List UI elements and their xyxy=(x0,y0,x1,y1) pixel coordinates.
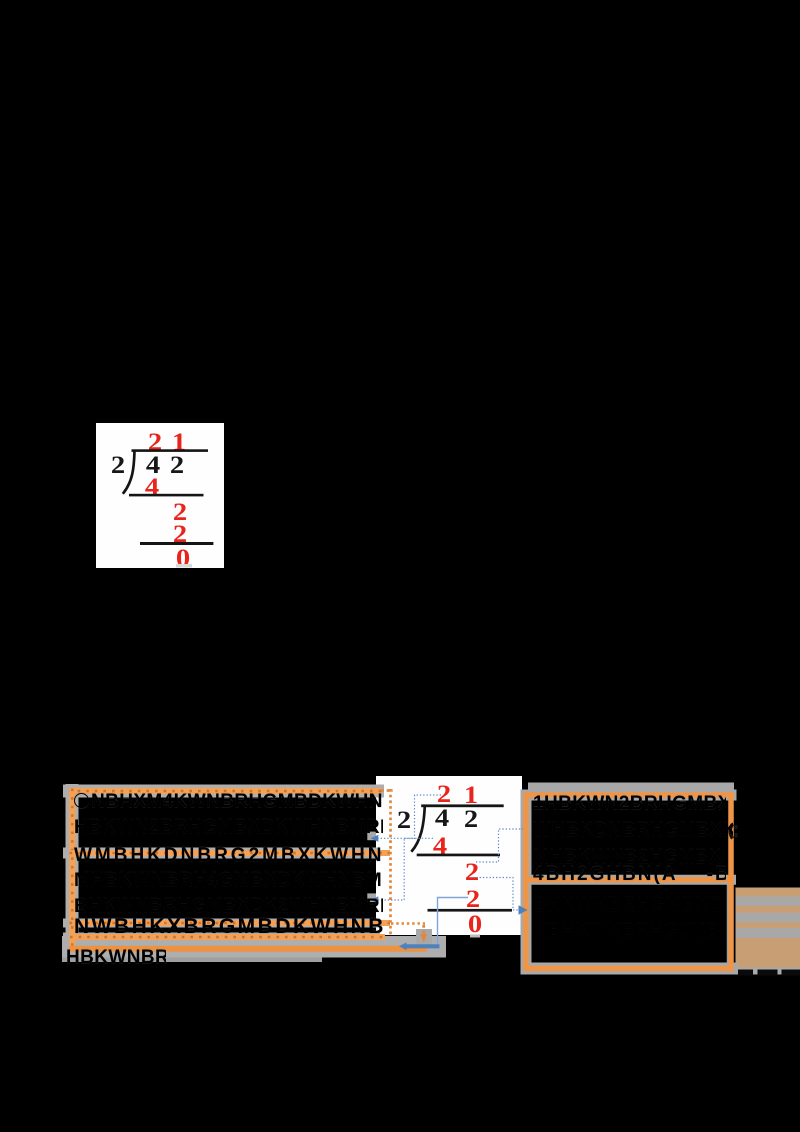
left box separator 1 dark dashes xyxy=(70,852,391,854)
halo of blue arrow B xyxy=(367,893,376,902)
halo of left dashed box top border xyxy=(63,785,384,798)
halo of blue arrow A xyxy=(367,832,376,841)
square-dot right border of left box xyxy=(389,789,392,935)
left box text line 3 xyxy=(74,846,383,865)
quotient digit 2 (red) xyxy=(437,781,451,807)
left box bottom border light bar xyxy=(70,934,385,940)
brought-down 2 (red) xyxy=(172,499,186,525)
left box separator 1 light bar xyxy=(70,850,391,856)
left box text line 1 xyxy=(74,792,383,811)
gray smudge under bottom 0 xyxy=(470,935,480,938)
beige highlighted text block right of right box xyxy=(736,888,800,969)
blue thick bar E xyxy=(404,944,440,948)
gray fuzz band under bottom-left caption xyxy=(62,958,322,963)
left box text line 2 xyxy=(74,818,383,837)
right box gray halo: left/top/bottom + extra top band xyxy=(521,790,532,975)
top division vinculum xyxy=(132,449,209,452)
left box text line 5 xyxy=(74,897,383,916)
right box orange border xyxy=(526,795,731,969)
halo of left box separator 2 xyxy=(63,919,380,928)
quotient digit 1 (red) xyxy=(464,782,478,808)
left box separator 2 dark dashes xyxy=(70,922,391,924)
gray smudge under top 0 xyxy=(176,564,192,568)
square-dot path F horizontal xyxy=(391,922,425,925)
left dashed box top border light bar xyxy=(69,788,381,794)
dividend digit 4 xyxy=(435,805,449,831)
white box of bottom division diagram xyxy=(376,776,522,935)
bottom division final line xyxy=(428,909,513,912)
gray text row below beige block xyxy=(736,968,800,975)
halo of left dashed box left border xyxy=(66,784,79,953)
bottom division vinculum xyxy=(421,804,504,807)
overflow glyph right of right box xyxy=(730,824,732,839)
white box of top division diagram xyxy=(96,423,224,568)
halo of left box separator 1 xyxy=(63,848,380,859)
text line below left box xyxy=(66,948,166,967)
right box separator halo xyxy=(521,875,736,885)
product 2 (red) xyxy=(466,886,480,912)
blue arrow E pointing left xyxy=(399,942,407,950)
subtracted 4 (red) xyxy=(144,474,158,500)
left dashed box top border dark dashes xyxy=(69,790,381,792)
bottom division first subtraction line xyxy=(417,854,500,857)
right box cell1 line 1 xyxy=(533,794,726,813)
left dashed box left border dark dashes xyxy=(71,789,73,951)
left box text line 4 xyxy=(74,871,383,890)
blue thin solid path E xyxy=(438,898,469,945)
orange arrow F pointing down xyxy=(420,934,427,943)
product 2 (red) xyxy=(172,521,186,547)
right box cell2 line on separator xyxy=(533,865,726,884)
right box cell2 line 2 xyxy=(533,896,726,915)
left box separator 2 light bar xyxy=(70,920,391,926)
right box cell1 line 3 xyxy=(533,848,726,867)
right box cell2 line 3 xyxy=(533,922,726,941)
divisor 2 xyxy=(111,452,125,478)
square-dot corner segment top right xyxy=(381,789,393,792)
blue dotted path C (remainder 2 to right box) xyxy=(476,829,523,862)
halo of left box bottom border xyxy=(63,933,380,942)
blue arrow A xyxy=(371,835,379,842)
right box cell1 line 2 xyxy=(533,821,733,840)
left box text line 6 xyxy=(74,917,383,936)
left box bottom border dark dashes xyxy=(70,936,385,938)
bottom thick orange bar xyxy=(69,946,427,952)
bottom division bracket curve xyxy=(411,806,425,852)
halo of orange down-arrow F xyxy=(416,929,432,947)
divisor 2 xyxy=(397,807,411,833)
square-dot path F vertical xyxy=(422,925,425,933)
quotient digit 1 (red) xyxy=(171,429,185,455)
blue arrow B xyxy=(371,896,379,903)
top division final line xyxy=(140,542,213,545)
blue arrow D xyxy=(519,905,528,914)
dividend digit 2 xyxy=(464,806,478,832)
brought-down 2 (red) xyxy=(464,859,478,885)
halo of bottom thick orange bar xyxy=(62,936,446,958)
remainder 0 (red) xyxy=(467,911,481,937)
blue dotted path A (to quotient tens digit) xyxy=(374,795,441,838)
blue dotted path B (to subtracted 4) xyxy=(374,838,433,900)
dividend digit 4 xyxy=(146,452,160,478)
blue dotted path D (to right box lower cell) xyxy=(473,878,518,911)
top division bracket curve xyxy=(123,451,135,494)
dividend digit 2 xyxy=(170,452,184,478)
top division first subtraction line xyxy=(129,494,204,497)
quotient digit 2 (red) xyxy=(148,429,162,455)
remainder 0 (red) xyxy=(176,545,190,571)
right box orange separator xyxy=(524,877,734,883)
subtracted 4 (red) xyxy=(433,833,447,859)
left dashed box left border light bar xyxy=(69,789,75,951)
